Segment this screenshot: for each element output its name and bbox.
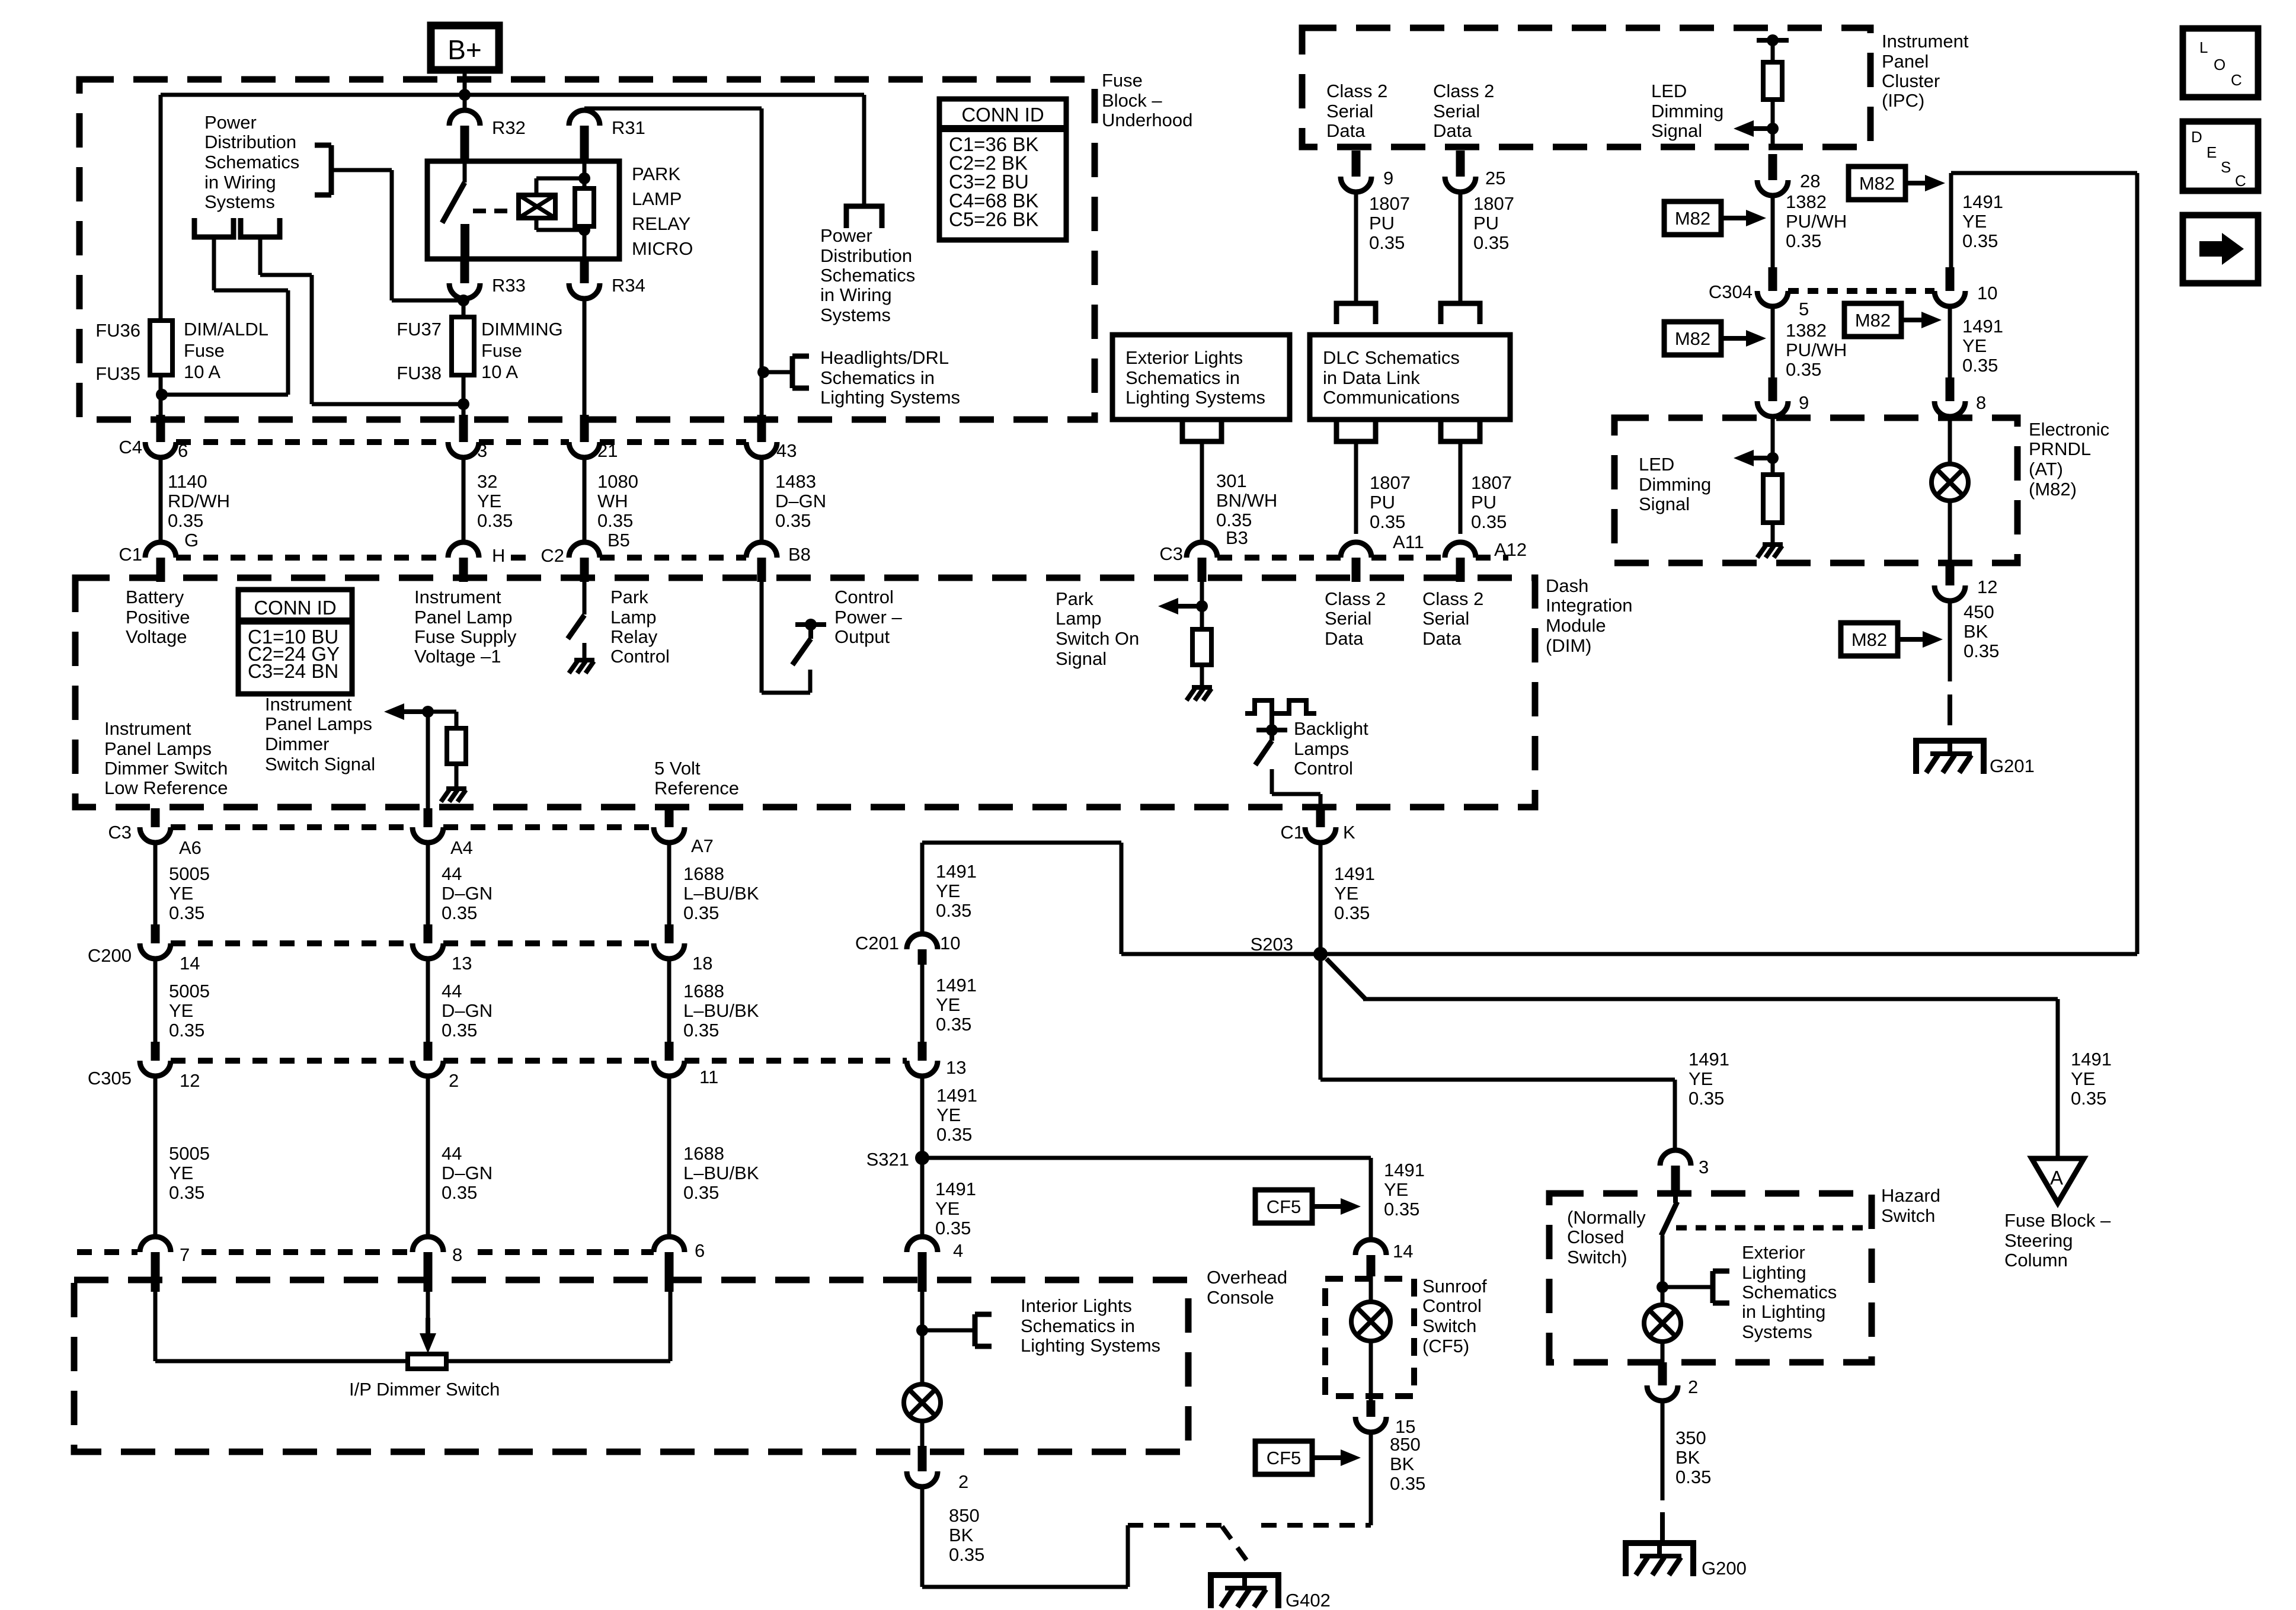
- svg-text:(DIM): (DIM): [1546, 635, 1591, 656]
- svg-text:Cluster: Cluster: [1882, 71, 1940, 91]
- svg-text:8: 8: [452, 1244, 462, 1265]
- svg-text:in Lighting: in Lighting: [1742, 1301, 1825, 1322]
- svg-text:A6: A6: [179, 837, 202, 858]
- svg-text:5: 5: [1799, 299, 1809, 319]
- svg-text:Lighting Systems: Lighting Systems: [1125, 387, 1265, 408]
- svg-text:0.35: 0.35: [936, 1014, 971, 1035]
- svg-text:Switch): Switch): [1567, 1247, 1627, 1267]
- svg-text:1491: 1491: [1962, 316, 2003, 337]
- svg-text:Systems: Systems: [820, 305, 891, 325]
- svg-text:8: 8: [1976, 392, 1986, 413]
- svg-text:Control: Control: [610, 646, 670, 667]
- svg-text:Overhead: Overhead: [1207, 1267, 1287, 1288]
- svg-text:Data: Data: [1422, 628, 1462, 649]
- svg-text:43: 43: [776, 440, 797, 461]
- svg-text:Backlight: Backlight: [1294, 718, 1368, 739]
- svg-text:21: 21: [597, 440, 618, 461]
- svg-text:Schematics in: Schematics in: [1125, 367, 1240, 388]
- svg-text:Voltage: Voltage: [126, 626, 187, 647]
- svg-text:Signal: Signal: [1056, 648, 1107, 669]
- svg-text:Serial: Serial: [1422, 608, 1469, 629]
- svg-text:PARK: PARK: [632, 164, 680, 184]
- svg-text:Closed: Closed: [1567, 1227, 1625, 1247]
- svg-text:E: E: [2207, 143, 2217, 161]
- svg-text:0.35: 0.35: [1473, 232, 1509, 253]
- svg-text:L–BU/BK: L–BU/BK: [683, 1163, 759, 1183]
- svg-text:Lighting Systems: Lighting Systems: [1021, 1335, 1160, 1356]
- svg-text:YE: YE: [169, 1163, 193, 1183]
- svg-text:0.35: 0.35: [1370, 511, 1405, 532]
- svg-text:YE: YE: [1689, 1068, 1713, 1089]
- svg-text:Module: Module: [1546, 615, 1606, 636]
- svg-text:11: 11: [699, 1067, 718, 1087]
- svg-text:Control: Control: [1294, 758, 1353, 779]
- svg-text:Electronic: Electronic: [2029, 419, 2109, 440]
- svg-text:12: 12: [180, 1070, 200, 1091]
- svg-text:(CF5): (CF5): [1422, 1336, 1469, 1356]
- svg-text:(IPC): (IPC): [1882, 90, 1924, 111]
- svg-text:Class 2: Class 2: [1326, 81, 1387, 101]
- svg-text:D–GN: D–GN: [775, 491, 826, 511]
- svg-text:C201: C201: [855, 933, 899, 953]
- svg-text:Instrument: Instrument: [1882, 31, 1969, 52]
- svg-text:0.35: 0.35: [936, 900, 971, 921]
- svg-text:Console: Console: [1207, 1287, 1274, 1308]
- svg-text:Serial: Serial: [1326, 101, 1373, 121]
- svg-text:Instrument: Instrument: [104, 718, 191, 739]
- svg-text:9: 9: [1799, 392, 1809, 413]
- svg-text:DIMMING: DIMMING: [481, 319, 563, 340]
- svg-text:Distribution: Distribution: [204, 132, 296, 152]
- svg-text:H: H: [492, 545, 505, 566]
- svg-text:Data: Data: [1325, 628, 1364, 649]
- svg-text:YE: YE: [169, 883, 193, 904]
- svg-text:301: 301: [1216, 470, 1247, 491]
- svg-text:D: D: [2191, 128, 2202, 146]
- svg-text:BK: BK: [949, 1525, 974, 1545]
- svg-text:14: 14: [1393, 1241, 1413, 1262]
- svg-text:1491: 1491: [936, 1085, 977, 1106]
- svg-text:44: 44: [442, 1143, 462, 1164]
- svg-text:YE: YE: [936, 994, 960, 1015]
- svg-text:850: 850: [1390, 1434, 1421, 1455]
- svg-text:in Wiring: in Wiring: [204, 172, 276, 193]
- svg-text:28: 28: [1800, 171, 1820, 191]
- svg-text:4: 4: [953, 1240, 963, 1261]
- svg-text:O: O: [2214, 56, 2225, 73]
- svg-text:Hazard: Hazard: [1881, 1185, 1940, 1206]
- svg-text:1491: 1491: [2071, 1049, 2112, 1070]
- svg-text:Distribution: Distribution: [820, 245, 912, 266]
- svg-text:R34: R34: [612, 275, 645, 296]
- svg-text:R31: R31: [612, 117, 645, 138]
- svg-text:D–GN: D–GN: [442, 883, 493, 904]
- svg-text:0.35: 0.35: [168, 510, 203, 531]
- svg-text:M82: M82: [1851, 629, 1887, 650]
- svg-text:0.35: 0.35: [1786, 231, 1821, 251]
- svg-text:Switch Signal: Switch Signal: [265, 754, 375, 774]
- svg-text:Voltage –1: Voltage –1: [414, 646, 501, 667]
- svg-text:C3=24 BN: C3=24 BN: [248, 660, 338, 682]
- svg-text:B5: B5: [607, 530, 630, 550]
- svg-text:1491: 1491: [936, 861, 977, 882]
- svg-text:RD/WH: RD/WH: [168, 491, 230, 511]
- svg-text:0.35: 0.35: [597, 510, 633, 531]
- svg-text:(M82): (M82): [2029, 479, 2077, 500]
- svg-text:S: S: [2221, 158, 2231, 176]
- svg-text:1688: 1688: [683, 981, 724, 1001]
- svg-text:PU: PU: [1370, 492, 1395, 513]
- svg-text:0.35: 0.35: [169, 902, 204, 923]
- svg-text:Dimming: Dimming: [1639, 474, 1711, 495]
- svg-text:Power: Power: [204, 112, 257, 133]
- svg-text:0.35: 0.35: [1390, 1473, 1425, 1494]
- svg-text:0.35: 0.35: [1471, 511, 1507, 532]
- svg-text:YE: YE: [1962, 335, 1987, 356]
- svg-text:S321: S321: [866, 1149, 909, 1170]
- svg-text:LED: LED: [1651, 81, 1687, 101]
- svg-text:(AT): (AT): [2029, 459, 2063, 479]
- svg-text:LAMP: LAMP: [632, 188, 682, 209]
- svg-text:A4: A4: [450, 837, 473, 858]
- svg-text:Lamp: Lamp: [1056, 608, 1102, 629]
- svg-text:1483: 1483: [775, 471, 816, 492]
- svg-text:6: 6: [178, 440, 188, 461]
- svg-text:A11: A11: [1393, 532, 1424, 552]
- svg-text:3: 3: [1699, 1157, 1709, 1177]
- svg-text:M82: M82: [1855, 310, 1891, 331]
- svg-text:in Wiring: in Wiring: [820, 284, 892, 305]
- svg-text:0.35: 0.35: [442, 1182, 477, 1203]
- svg-text:2: 2: [449, 1070, 459, 1091]
- svg-text:YE: YE: [169, 1000, 193, 1021]
- svg-text:Panel Lamps: Panel Lamps: [104, 738, 212, 759]
- svg-text:BK: BK: [1964, 621, 1988, 642]
- svg-text:G402: G402: [1285, 1590, 1331, 1610]
- svg-text:PU: PU: [1369, 213, 1395, 233]
- svg-text:B8: B8: [788, 544, 811, 565]
- svg-text:5005: 5005: [169, 863, 210, 884]
- svg-text:FU38: FU38: [396, 363, 442, 383]
- svg-text:A: A: [2050, 1167, 2063, 1189]
- svg-text:Steering: Steering: [2004, 1230, 2073, 1251]
- svg-text:0.35: 0.35: [1334, 902, 1370, 923]
- svg-text:Relay: Relay: [610, 626, 658, 647]
- svg-text:5005: 5005: [169, 1143, 210, 1164]
- svg-text:0.35: 0.35: [683, 1182, 719, 1203]
- svg-text:Schematics in: Schematics in: [820, 367, 935, 388]
- svg-text:Reference: Reference: [654, 778, 739, 799]
- svg-text:Interior Lights: Interior Lights: [1021, 1295, 1132, 1316]
- svg-text:Battery: Battery: [126, 587, 184, 607]
- svg-text:Panel Lamps: Panel Lamps: [265, 713, 372, 734]
- svg-text:1080: 1080: [597, 471, 638, 492]
- svg-text:G200: G200: [1702, 1558, 1747, 1579]
- svg-text:Control: Control: [834, 587, 894, 607]
- svg-text:YE: YE: [1384, 1179, 1408, 1200]
- svg-text:1382: 1382: [1786, 320, 1827, 341]
- svg-text:0.35: 0.35: [2071, 1088, 2106, 1109]
- svg-text:C3: C3: [108, 822, 132, 843]
- svg-text:1491: 1491: [1689, 1049, 1729, 1070]
- svg-text:13: 13: [946, 1057, 966, 1078]
- svg-text:13: 13: [452, 953, 472, 974]
- svg-text:Schematics: Schematics: [820, 265, 915, 286]
- svg-text:0.35: 0.35: [1964, 641, 1999, 661]
- svg-text:Low Reference: Low Reference: [104, 777, 228, 798]
- svg-text:M82: M82: [1859, 173, 1895, 194]
- svg-text:0.35: 0.35: [1962, 355, 1998, 376]
- svg-text:L–BU/BK: L–BU/BK: [683, 1000, 759, 1021]
- svg-text:7: 7: [180, 1244, 190, 1265]
- svg-text:Instrument: Instrument: [265, 694, 352, 715]
- svg-text:0.35: 0.35: [683, 902, 719, 923]
- svg-text:32: 32: [477, 471, 497, 492]
- svg-text:R33: R33: [492, 275, 526, 296]
- svg-text:C1: C1: [119, 544, 142, 565]
- svg-text:12: 12: [1977, 577, 1997, 597]
- svg-text:0.35: 0.35: [1384, 1199, 1419, 1219]
- svg-text:L: L: [2199, 39, 2208, 56]
- svg-text:FU37: FU37: [396, 319, 442, 340]
- svg-text:Switch: Switch: [1881, 1205, 1935, 1226]
- svg-text:1491: 1491: [1962, 191, 2003, 212]
- svg-text:S203: S203: [1251, 934, 1293, 955]
- svg-text:0.35: 0.35: [1675, 1467, 1711, 1487]
- svg-text:1491: 1491: [1384, 1160, 1425, 1180]
- svg-text:Park: Park: [1056, 588, 1093, 609]
- svg-text:YE: YE: [1962, 211, 1987, 232]
- svg-text:5 Volt: 5 Volt: [654, 758, 701, 779]
- svg-text:0.35: 0.35: [1786, 359, 1821, 380]
- svg-text:C305: C305: [88, 1068, 132, 1089]
- svg-text:10 A: 10 A: [481, 361, 518, 382]
- svg-text:Schematics in: Schematics in: [1021, 1315, 1135, 1336]
- svg-text:Class 2: Class 2: [1325, 588, 1386, 609]
- svg-text:C5=26 BK: C5=26 BK: [949, 208, 1038, 230]
- svg-text:Dimmer Switch: Dimmer Switch: [104, 758, 228, 779]
- svg-text:Systems: Systems: [204, 191, 275, 212]
- svg-text:C: C: [2231, 71, 2242, 89]
- svg-text:1807: 1807: [1369, 193, 1410, 214]
- svg-text:Fuse: Fuse: [481, 340, 522, 361]
- svg-text:5005: 5005: [169, 981, 210, 1001]
- svg-text:Fuse Block –: Fuse Block –: [2004, 1210, 2111, 1231]
- svg-text:2: 2: [958, 1471, 968, 1492]
- svg-text:PU/WH: PU/WH: [1786, 211, 1847, 232]
- svg-text:0.35: 0.35: [683, 1020, 719, 1041]
- svg-text:M82: M82: [1675, 208, 1710, 229]
- svg-text:Schematics: Schematics: [1742, 1282, 1837, 1302]
- svg-text:0.35: 0.35: [442, 902, 477, 923]
- svg-text:Lamps: Lamps: [1294, 738, 1349, 759]
- svg-text:MICRO: MICRO: [632, 238, 693, 259]
- svg-text:Control: Control: [1422, 1295, 1482, 1316]
- svg-text:Serial: Serial: [1433, 101, 1480, 121]
- svg-text:YE: YE: [477, 491, 501, 511]
- svg-text:C200: C200: [88, 945, 132, 966]
- svg-text:C3: C3: [1159, 543, 1183, 564]
- svg-text:350: 350: [1675, 1427, 1706, 1448]
- svg-text:Fuse: Fuse: [184, 340, 225, 361]
- svg-text:Instrument: Instrument: [414, 587, 501, 607]
- svg-text:10: 10: [940, 933, 960, 953]
- svg-text:1688: 1688: [683, 863, 724, 884]
- svg-text:Signal: Signal: [1639, 494, 1690, 514]
- svg-text:1491: 1491: [1334, 863, 1375, 884]
- svg-text:R32: R32: [492, 117, 526, 138]
- svg-text:0.35: 0.35: [442, 1020, 477, 1041]
- svg-text:PU: PU: [1473, 213, 1499, 233]
- svg-text:D–GN: D–GN: [442, 1163, 493, 1183]
- svg-text:0.35: 0.35: [1369, 232, 1405, 253]
- svg-text:BK: BK: [1390, 1454, 1415, 1474]
- svg-text:Switch: Switch: [1422, 1315, 1476, 1336]
- svg-text:3: 3: [477, 440, 487, 461]
- svg-text:Lighting: Lighting: [1742, 1262, 1806, 1283]
- svg-text:Communications: Communications: [1323, 387, 1460, 408]
- svg-text:Data: Data: [1326, 120, 1366, 141]
- svg-text:Power: Power: [820, 225, 872, 246]
- svg-text:1688: 1688: [683, 1143, 724, 1164]
- svg-text:10: 10: [1977, 283, 1997, 303]
- svg-text:A12: A12: [1494, 539, 1527, 560]
- svg-text:LED: LED: [1639, 454, 1674, 475]
- svg-text:DIM/ALDL: DIM/ALDL: [184, 319, 268, 340]
- svg-text:Power –: Power –: [834, 607, 902, 628]
- svg-text:Output: Output: [834, 626, 890, 647]
- svg-text:B3: B3: [1226, 527, 1248, 548]
- svg-text:1491: 1491: [936, 975, 977, 996]
- svg-text:Block –: Block –: [1102, 90, 1162, 111]
- svg-text:WH: WH: [597, 491, 628, 511]
- svg-text:Class 2: Class 2: [1422, 588, 1483, 609]
- svg-text:Lamp: Lamp: [610, 607, 657, 628]
- svg-text:C: C: [2235, 172, 2246, 190]
- svg-text:Data: Data: [1433, 120, 1472, 141]
- svg-text:G: G: [184, 530, 199, 550]
- svg-text:Lighting Systems: Lighting Systems: [820, 387, 960, 408]
- svg-text:0.35: 0.35: [169, 1182, 204, 1203]
- svg-text:BN/WH: BN/WH: [1216, 490, 1277, 511]
- svg-text:Panel: Panel: [1882, 51, 1929, 72]
- svg-text:Fuse: Fuse: [1102, 70, 1143, 91]
- svg-text:0.35: 0.35: [775, 510, 811, 531]
- svg-text:0.35: 0.35: [1962, 231, 1998, 251]
- svg-text:Dash: Dash: [1546, 575, 1588, 596]
- svg-text:PRNDL: PRNDL: [2029, 438, 2091, 459]
- svg-text:YE: YE: [2071, 1068, 2095, 1089]
- svg-text:(Normally: (Normally: [1567, 1207, 1646, 1228]
- svg-text:0.35: 0.35: [936, 1124, 972, 1145]
- svg-text:CONN ID: CONN ID: [254, 597, 336, 619]
- svg-text:I/P Dimmer Switch: I/P Dimmer Switch: [349, 1379, 500, 1400]
- svg-text:YE: YE: [936, 1105, 961, 1125]
- svg-text:1807: 1807: [1473, 193, 1514, 214]
- svg-text:RELAY: RELAY: [632, 213, 690, 234]
- svg-text:Schematics: Schematics: [204, 152, 299, 172]
- svg-text:0.35: 0.35: [935, 1218, 971, 1238]
- svg-text:D–GN: D–GN: [442, 1000, 493, 1021]
- svg-text:Sunroof: Sunroof: [1422, 1276, 1487, 1297]
- svg-text:YE: YE: [1334, 883, 1358, 904]
- svg-text:YE: YE: [936, 881, 960, 901]
- svg-text:Exterior: Exterior: [1742, 1242, 1805, 1263]
- svg-text:1807: 1807: [1370, 472, 1411, 493]
- svg-text:0.35: 0.35: [169, 1020, 204, 1041]
- svg-text:PU: PU: [1471, 492, 1496, 513]
- svg-text:9: 9: [1383, 168, 1393, 188]
- svg-text:Fuse Supply: Fuse Supply: [414, 626, 517, 647]
- svg-text:C2: C2: [541, 545, 564, 566]
- svg-text:Serial: Serial: [1325, 608, 1371, 629]
- svg-text:Positive: Positive: [126, 607, 190, 628]
- svg-text:450: 450: [1964, 601, 1994, 622]
- svg-text:10 A: 10 A: [184, 361, 220, 382]
- svg-text:DLC Schematics: DLC Schematics: [1323, 347, 1460, 368]
- svg-text:CF5: CF5: [1267, 1448, 1302, 1468]
- svg-text:Integration: Integration: [1546, 595, 1633, 616]
- svg-text:G201: G201: [1990, 756, 2035, 776]
- svg-text:Dimmer: Dimmer: [265, 734, 330, 754]
- svg-text:1807: 1807: [1471, 472, 1512, 493]
- svg-text:Exterior Lights: Exterior Lights: [1125, 347, 1243, 368]
- svg-text:25: 25: [1485, 168, 1505, 188]
- svg-text:2: 2: [1688, 1377, 1698, 1397]
- svg-text:18: 18: [692, 953, 712, 974]
- svg-text:B+: B+: [447, 34, 482, 65]
- svg-text:C1: C1: [1280, 822, 1304, 843]
- svg-text:C304: C304: [1709, 281, 1753, 302]
- svg-text:Park: Park: [610, 587, 648, 607]
- svg-text:K: K: [1343, 822, 1355, 843]
- svg-text:Panel Lamp: Panel Lamp: [414, 607, 512, 628]
- svg-text:BK: BK: [1675, 1447, 1700, 1468]
- svg-text:44: 44: [442, 981, 462, 1001]
- svg-text:Signal: Signal: [1651, 120, 1702, 141]
- svg-text:1491: 1491: [935, 1179, 976, 1199]
- svg-text:YE: YE: [935, 1198, 960, 1219]
- svg-text:Column: Column: [2004, 1250, 2068, 1270]
- svg-text:0.35: 0.35: [949, 1544, 984, 1565]
- svg-text:6: 6: [695, 1240, 705, 1261]
- svg-text:14: 14: [180, 953, 200, 974]
- svg-text:850: 850: [949, 1505, 980, 1526]
- svg-text:44: 44: [442, 863, 462, 884]
- svg-text:FU36: FU36: [95, 320, 140, 341]
- svg-text:Headlights/DRL: Headlights/DRL: [820, 347, 949, 368]
- svg-text:A7: A7: [691, 836, 714, 856]
- svg-text:CONN ID: CONN ID: [961, 104, 1044, 126]
- svg-text:Dimming: Dimming: [1651, 101, 1723, 121]
- svg-text:1140: 1140: [168, 471, 207, 492]
- svg-text:PU/WH: PU/WH: [1786, 340, 1847, 360]
- svg-text:C4: C4: [119, 437, 142, 457]
- svg-text:in Data Link: in Data Link: [1323, 367, 1420, 388]
- svg-text:0.35: 0.35: [1689, 1088, 1724, 1109]
- svg-text:Switch On: Switch On: [1056, 628, 1139, 649]
- svg-text:CF5: CF5: [1267, 1196, 1302, 1217]
- svg-text:M82: M82: [1675, 328, 1710, 349]
- svg-text:1382: 1382: [1786, 191, 1827, 212]
- svg-text:Systems: Systems: [1742, 1321, 1812, 1342]
- svg-text:Class 2: Class 2: [1433, 81, 1494, 101]
- svg-text:0.35: 0.35: [477, 510, 513, 531]
- svg-text:FU35: FU35: [95, 363, 140, 384]
- svg-text:L–BU/BK: L–BU/BK: [683, 883, 759, 904]
- svg-text:Underhood: Underhood: [1102, 110, 1192, 130]
